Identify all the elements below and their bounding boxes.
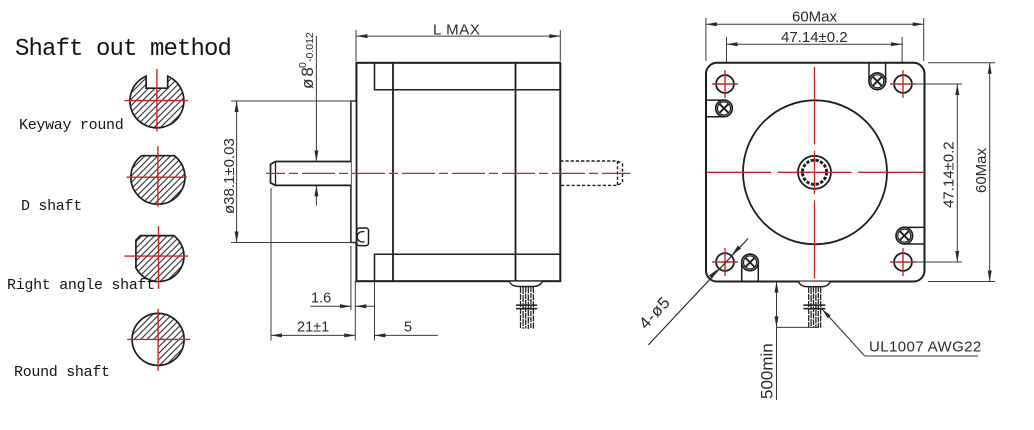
connector detail box bbox=[357, 228, 369, 246]
front shaft bbox=[271, 162, 351, 186]
svg-text:500min: 500min bbox=[758, 343, 777, 399]
cable exit bell (side) bbox=[510, 282, 543, 287]
red centerline bbox=[266, 172, 631, 174]
screw TL bbox=[706, 100, 732, 117]
round shaft crosshair bbox=[127, 309, 190, 371]
svg-text:1.6: 1.6 bbox=[311, 291, 331, 307]
cable clamp (front) bbox=[803, 304, 825, 306]
dim 1.6 bbox=[311, 246, 375, 310]
screw TR bbox=[869, 63, 886, 90]
bottom lamination recess line bbox=[375, 254, 561, 281]
dim 47.14±0.2 right bbox=[913, 84, 962, 262]
dim dia38.1 bbox=[231, 101, 354, 243]
mounting hole TL bbox=[716, 75, 734, 93]
svg-text:4-ø5: 4-ø5 bbox=[636, 293, 674, 332]
svg-text:ø38.1±0.03: ø38.1±0.03 bbox=[221, 138, 238, 214]
dim 47.14±0.2 top bbox=[727, 37, 903, 62]
right angle crosshair bbox=[124, 226, 188, 289]
top lamination recess line bbox=[375, 63, 561, 90]
cable bundle (front) bbox=[809, 287, 821, 328]
rear endcap boundary line bbox=[515, 63, 517, 281]
label UL1007 AWG22 bbox=[865, 355, 978, 357]
pilot boss circle bbox=[743, 100, 887, 244]
svg-text:60Max: 60Max bbox=[973, 147, 990, 193]
screw BL bbox=[742, 254, 759, 281]
dim 60Max right bbox=[928, 63, 995, 282]
cable clamp (side) bbox=[516, 304, 537, 306]
central red centerlines bbox=[706, 67, 924, 279]
front endcap boundary line bbox=[392, 63, 394, 281]
front square body bbox=[706, 63, 925, 282]
dim dia8 0/-0.012 bbox=[315, 36, 317, 206]
svg-text:Keyway round: Keyway round bbox=[19, 117, 123, 134]
svg-text:D shaft: D shaft bbox=[21, 198, 82, 215]
shaft chamfer line bbox=[275, 162, 277, 186]
svg-text:UL1007 AWG22: UL1007 AWG22 bbox=[869, 339, 982, 356]
svg-text:47.14±0.2: 47.14±0.2 bbox=[941, 141, 958, 208]
label 4-ø5 leader bbox=[648, 239, 748, 345]
svg-text:60Max: 60Max bbox=[792, 9, 838, 26]
pilot boss (side) bbox=[351, 101, 357, 243]
shaft circle bbox=[798, 156, 831, 189]
svg-text:Shaft out method: Shaft out method bbox=[15, 36, 231, 63]
keyway round shaft section bbox=[130, 76, 184, 128]
svg-text:Round shaft: Round shaft bbox=[14, 364, 110, 381]
svg-text:21±1: 21±1 bbox=[297, 320, 329, 336]
motor body outline bbox=[356, 63, 560, 281]
keyway round crosshair bbox=[124, 69, 187, 132]
svg-text:Right angle shaft: Right angle shaft bbox=[7, 277, 155, 294]
cable bundle (side) bbox=[521, 287, 534, 329]
svg-text:-0.012: -0.012 bbox=[304, 32, 316, 62]
mounting hole BL bbox=[716, 253, 734, 271]
round shaft section bbox=[132, 313, 184, 339]
dim 500min bbox=[777, 282, 820, 401]
screw BR bbox=[896, 227, 925, 244]
svg-text:L MAX: L MAX bbox=[433, 22, 480, 39]
dim 21±1 bbox=[271, 188, 438, 341]
rear shaft (dashed, optional) bbox=[560, 161, 622, 185]
svg-text:5: 5 bbox=[404, 320, 412, 336]
right angle shaft section bbox=[136, 236, 184, 282]
connector inner bbox=[357, 232, 364, 242]
dim L MAX bbox=[356, 30, 560, 61]
cable exit bell (front) bbox=[799, 282, 831, 287]
mounting hole TR bbox=[894, 75, 912, 93]
dim 60Max top bbox=[706, 18, 924, 61]
svg-text:47.14±0.2: 47.14±0.2 bbox=[781, 29, 848, 46]
shaft inner dashed circle bbox=[802, 160, 826, 184]
D shaft crosshair bbox=[127, 146, 188, 207]
D shaft section bbox=[131, 156, 185, 205]
mounting hole BR bbox=[894, 253, 912, 271]
